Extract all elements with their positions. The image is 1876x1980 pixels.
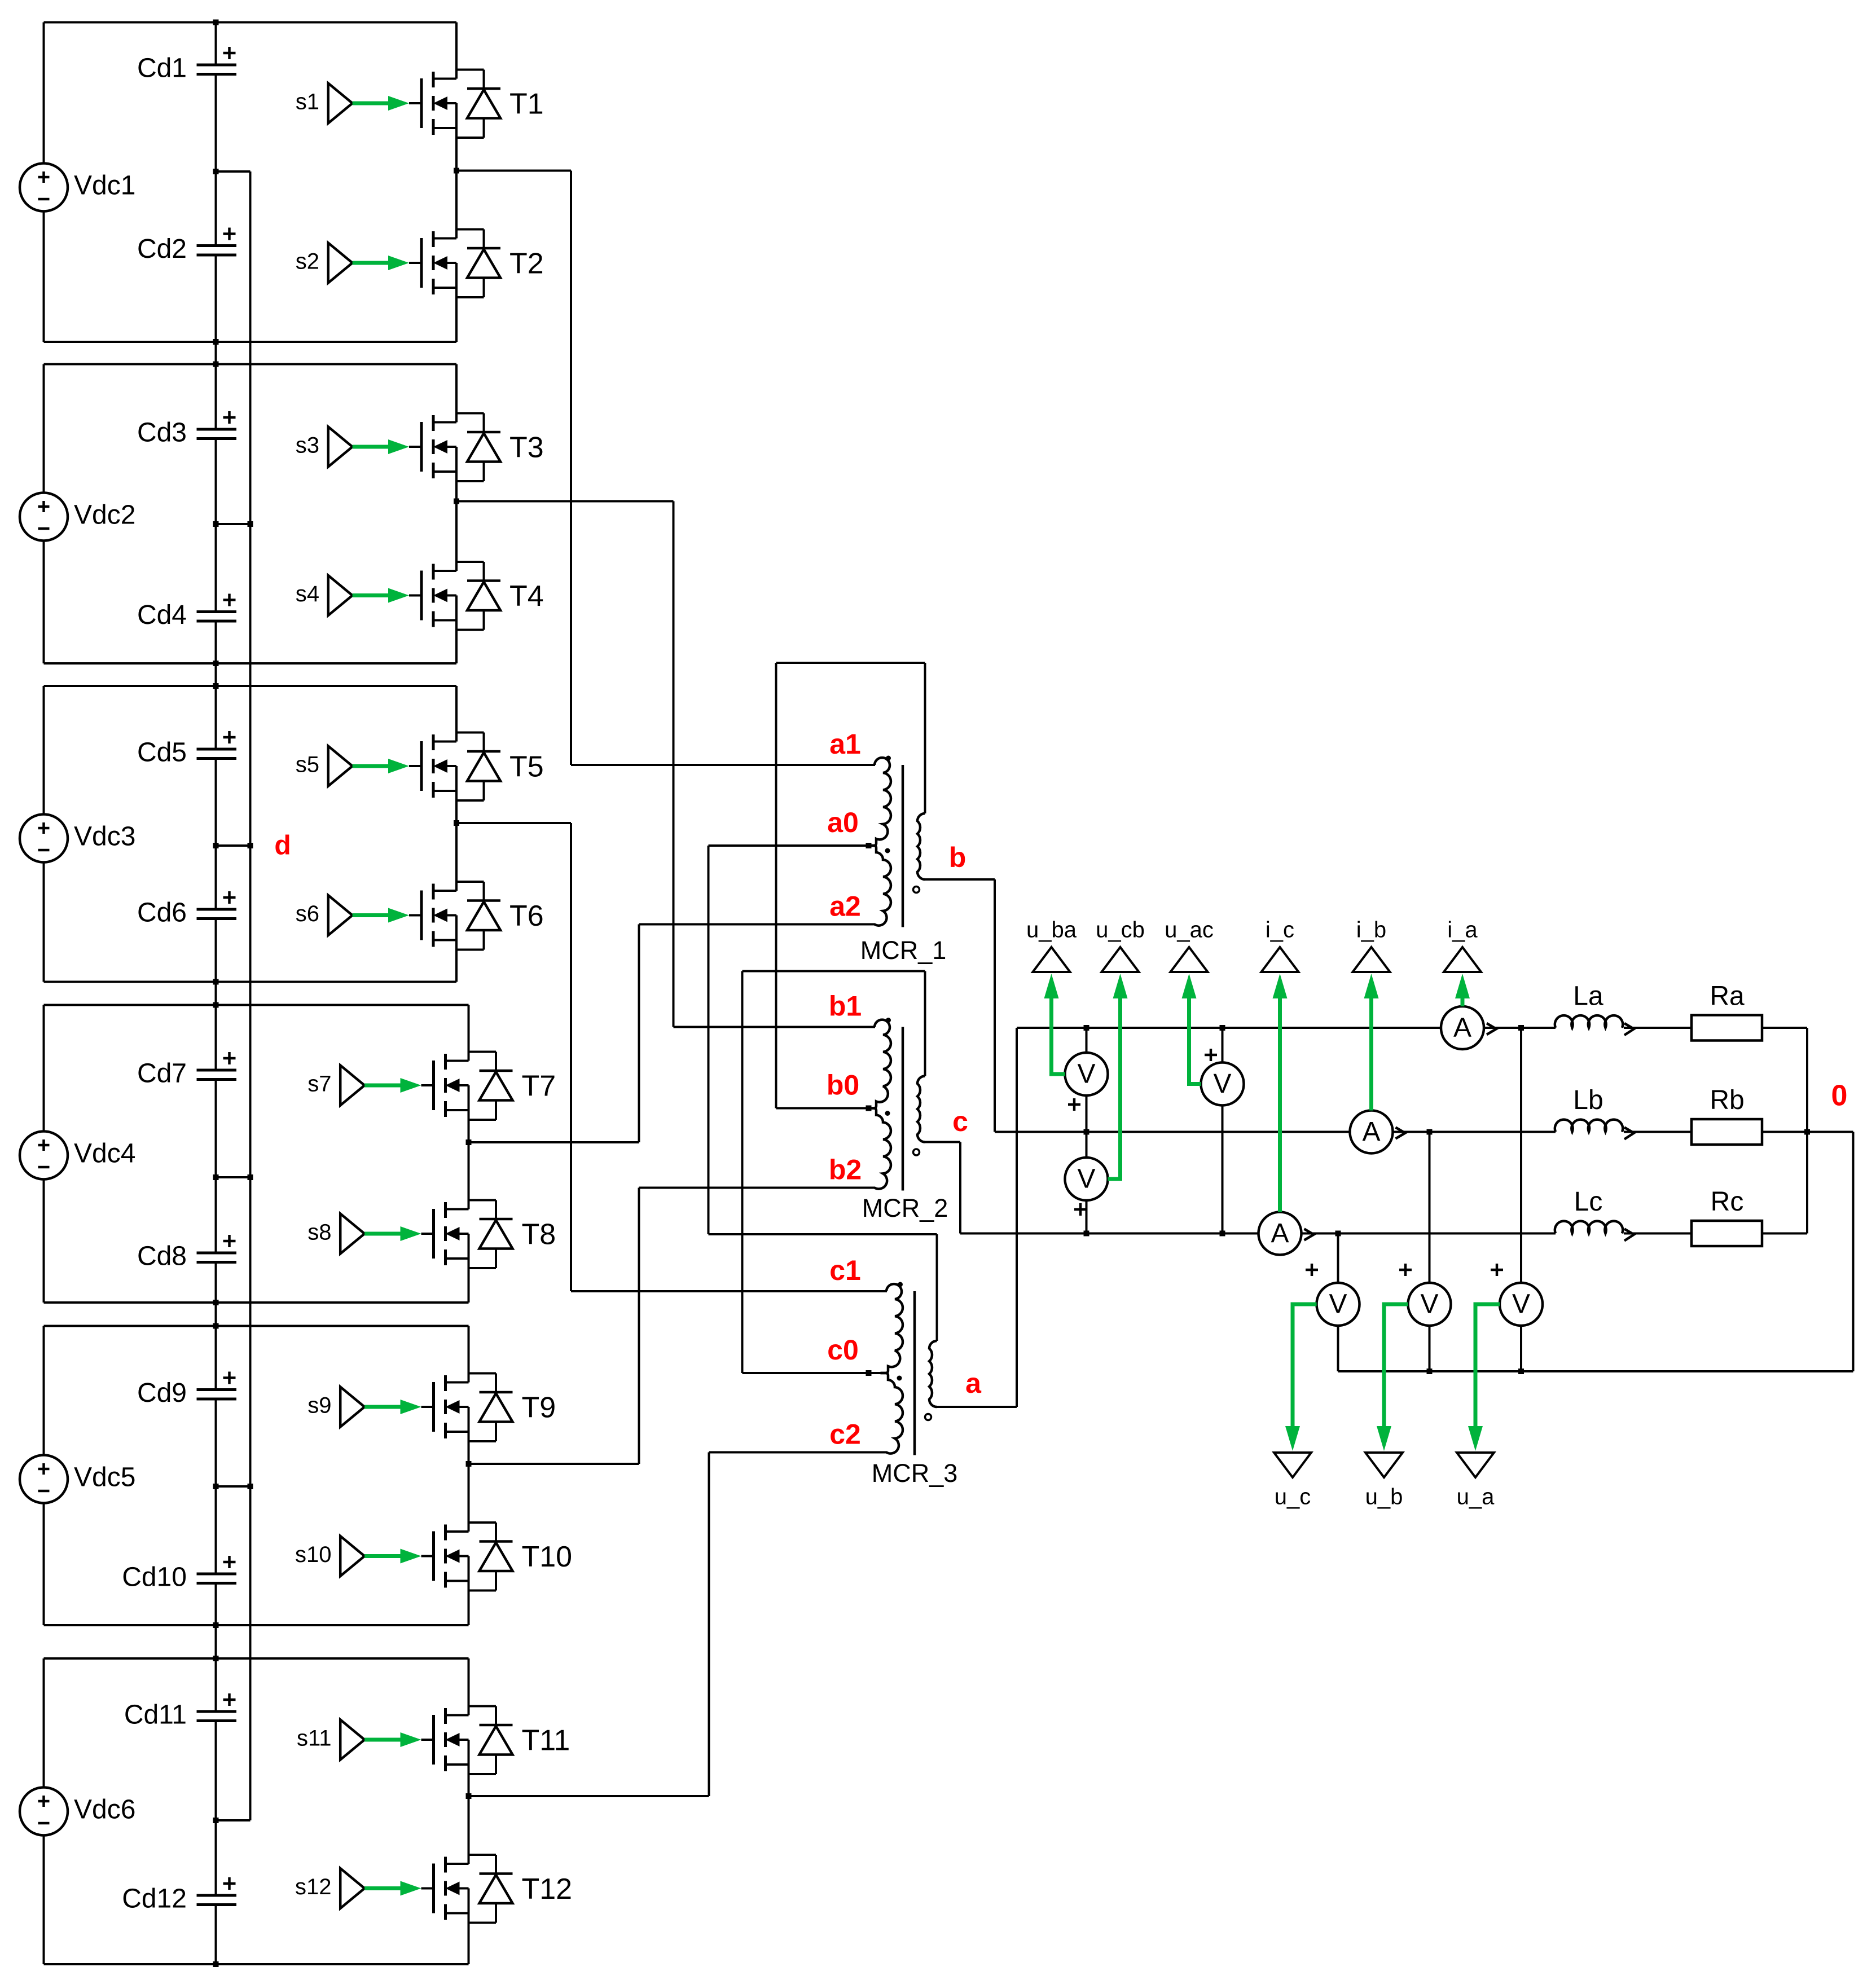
wire cell4 drain link upper [468, 1005, 470, 1061]
gate driver s12 [340, 1868, 433, 1908]
probe i_b [1353, 918, 1390, 972]
gate driver s6 [328, 895, 421, 935]
polarity circle MCR_1 secondary [913, 887, 920, 893]
wire cell5 mid link [468, 1407, 470, 1532]
gate driver s11 [340, 1720, 433, 1760]
wire cell1 left side upper [43, 23, 45, 164]
probe i_c [1262, 918, 1299, 972]
green link u_ac [1189, 998, 1201, 1084]
gate driver s5 [328, 746, 421, 786]
svg-text:Cd8: Cd8 [137, 1242, 187, 1271]
junction cell3 d-bus tap [248, 843, 253, 848]
wire cap branch cell5 bottom [215, 1583, 217, 1626]
wire c0 to MCR_2 secondary horizontal [743, 970, 925, 973]
svg-text:u_a: u_a [1457, 1485, 1495, 1510]
wire cell1 top rail [44, 21, 457, 24]
svg-text:s7: s7 [307, 1072, 331, 1097]
green arrow u_a [1468, 1426, 1483, 1451]
junction cell2 cap-branch top [213, 362, 219, 367]
wire cell3 phase to c1 horizontal [456, 822, 571, 824]
wire cell1 phase to a1 vertical [570, 171, 572, 765]
svg-text:0: 0 [1831, 1080, 1848, 1112]
wire b0 to MCR_1 secondary horizontal [776, 662, 925, 664]
wire rail b after resistor [1762, 1131, 1807, 1133]
wire cell1 bottom rail [44, 341, 457, 343]
wire c2 lead [709, 1451, 888, 1454]
svg-text:a: a [965, 1367, 982, 1399]
wire load star vertical [1806, 1028, 1808, 1234]
junction cell2 d-bus tap [248, 521, 253, 527]
capacitor Cd8 [137, 1235, 236, 1271]
wire a0 to MCR_3 secondary vertical [708, 846, 710, 1234]
wire cell3 drain link upper [455, 686, 458, 742]
svg-text:c1: c1 [829, 1255, 861, 1286]
wire MCR_3 secondary top lead [936, 1234, 938, 1341]
junction u_a rail a [1518, 1025, 1524, 1031]
svg-text:La: La [1573, 982, 1603, 1011]
junction cell4 cap-branch bottom [213, 1300, 219, 1305]
wire cell4 top rail [44, 1004, 469, 1006]
svg-text:T10: T10 [522, 1541, 573, 1573]
wire cap branch cell3 bottom [215, 919, 217, 982]
wire rail a after inductor [1624, 1027, 1692, 1029]
label plus u_b [1399, 1264, 1412, 1276]
wire phase c output vertical [959, 1142, 961, 1234]
transistor T3 [409, 413, 500, 482]
wire cell5 top rail [44, 1325, 469, 1327]
junction cell2 cap-branch bottom [213, 661, 219, 666]
wire cap branch cell6 mid-lower [215, 1820, 217, 1895]
wire b1 lead [674, 1026, 876, 1028]
svg-text:s11: s11 [297, 1726, 332, 1751]
junction u_ac rail c [1220, 1231, 1225, 1237]
green link i_a [1461, 998, 1465, 1006]
wire b0 to MCR_1 secondary vertical [775, 663, 777, 1108]
svg-text:A: A [1271, 1218, 1289, 1248]
wire rail c right segment [1302, 1233, 1556, 1235]
wire rail a left segment [1017, 1027, 1441, 1029]
svg-text:T7: T7 [522, 1070, 556, 1103]
svg-text:T3: T3 [509, 432, 544, 464]
wire rail c after inductor [1624, 1233, 1692, 1235]
wire cell3 top rail [44, 685, 457, 687]
gate driver s1 [328, 83, 421, 124]
junction cell5 cap-branch bottom [213, 1622, 219, 1628]
wire cell6 left side upper [43, 1658, 45, 1788]
svg-text:MCR_2: MCR_2 [862, 1194, 948, 1222]
svg-text:b1: b1 [829, 991, 862, 1022]
wire cell2 left side lower [43, 541, 45, 664]
gate driver s9 [340, 1387, 433, 1427]
svg-text:s3: s3 [296, 433, 319, 458]
wire cell4 capacitor midpoint to d-bus [216, 1176, 251, 1178]
gate driver s8 [340, 1214, 433, 1254]
transistor T7 [421, 1052, 513, 1120]
capacitor Cd5 [137, 731, 236, 768]
node cell5 phase junction [466, 1461, 472, 1467]
probe u_c [1274, 1453, 1311, 1510]
resistor Rc [1692, 1187, 1762, 1246]
inductor Lc [1555, 1187, 1634, 1240]
svg-text:Cd11: Cd11 [124, 1700, 187, 1730]
wire cell1 left side lower [43, 212, 45, 342]
wire V column middle lead [1086, 1095, 1088, 1158]
svg-text:u_b: u_b [1365, 1485, 1403, 1510]
wire cap branch cell3 mid-lower [215, 846, 217, 909]
wire series link cell4-cell5 [215, 1303, 217, 1326]
svg-text:b0: b0 [827, 1070, 859, 1101]
capacitor Cd10 [122, 1556, 236, 1592]
junction cell2 capacitor midpoint [213, 521, 219, 527]
junction cell4 cap-branch top [213, 1002, 219, 1008]
junction MCR_3 center tap [866, 1370, 872, 1376]
capacitor Cd4 [137, 594, 236, 631]
label plus u_c [1306, 1264, 1318, 1276]
wire cell5 phase to b2 vertical [638, 1188, 640, 1464]
svg-text:Cd9: Cd9 [137, 1378, 187, 1408]
wire rail b after inductor [1624, 1131, 1692, 1133]
node cell1 phase junction [454, 168, 459, 174]
polarity dot MCR_2 primary upper [886, 1018, 891, 1023]
wire cell4 left side lower [43, 1180, 45, 1303]
wire rail a after resistor [1762, 1027, 1807, 1029]
svg-text:T1: T1 [509, 88, 544, 121]
junction cell3 cap-branch bottom [213, 979, 219, 985]
wire cell5 phase to b2 horizontal [469, 1463, 639, 1465]
voltmeter u_c [1317, 1283, 1360, 1326]
green arrow u_cb [1113, 974, 1128, 1001]
wire cell5 left side lower [43, 1503, 45, 1626]
svg-text:Lb: Lb [1573, 1085, 1603, 1115]
svg-text:s2: s2 [296, 249, 319, 274]
capacitor Cd1 [137, 47, 236, 83]
wire neutral return top [1807, 1131, 1853, 1133]
junction u_b bottom wire [1427, 1369, 1433, 1374]
wire cap branch cell4 mid-lower [215, 1177, 217, 1253]
green arrow u_ba [1044, 974, 1059, 1001]
svg-text:i_c: i_c [1266, 918, 1294, 943]
wire rail b left segment [995, 1131, 1350, 1133]
green arrow i_b [1364, 974, 1379, 1001]
junction cell6 cap-branch bottom [213, 1961, 219, 1967]
wire cell6 left side lower [43, 1836, 45, 1965]
polarity circle MCR_3 secondary [925, 1414, 932, 1420]
svg-text:a2: a2 [829, 891, 861, 922]
voltage source Vdc4 [20, 1132, 135, 1180]
voltmeter u_ba [1065, 1053, 1108, 1095]
green arrow i_c [1273, 974, 1288, 1001]
transistor T12 [421, 1855, 513, 1923]
junction u_ac rail a [1220, 1025, 1225, 1031]
wire phase b output horizontal [925, 878, 995, 881]
wire cell6 top rail [44, 1657, 469, 1660]
transistor T2 [409, 230, 500, 298]
svg-text:T9: T9 [522, 1392, 556, 1424]
wire cell3 bottom rail [44, 981, 457, 983]
junction V column rail b [1084, 1129, 1089, 1135]
svg-text:i_a: i_a [1447, 918, 1478, 943]
svg-text:Ra: Ra [1710, 982, 1745, 1011]
polarity dot MCR_1 primary upper [886, 756, 891, 761]
gate driver s7 [340, 1066, 433, 1106]
gate driver s2 [328, 243, 421, 283]
wire cap branch cell6 bottom [215, 1905, 217, 1965]
svg-text:Vdc4: Vdc4 [74, 1139, 135, 1169]
wire phase c output horizontal [925, 1141, 961, 1143]
wire MCR_1 secondary top lead [924, 663, 926, 813]
wire cell2 drain link upper [455, 364, 458, 423]
wire u_c bottom lead [1337, 1326, 1339, 1371]
svg-text:b: b [949, 842, 966, 873]
gate driver s10 [340, 1536, 433, 1576]
wire u_ac upper lead [1222, 1028, 1224, 1063]
node cell3 phase junction [454, 820, 459, 826]
junction cell4 d-bus tap [248, 1174, 253, 1180]
wire b0 tap horizontal [776, 1107, 869, 1110]
junction MCR_2 center tap [866, 1106, 872, 1111]
svg-text:b2: b2 [829, 1154, 862, 1186]
wire cap branch cell3 upper [215, 686, 217, 749]
svg-text:s8: s8 [307, 1220, 331, 1245]
wire cell3 capacitor midpoint to d-bus [216, 844, 251, 847]
transistor T8 [421, 1200, 513, 1269]
capacitor Cd7 [137, 1052, 236, 1089]
wire cell3 phase to c1 vertical [570, 823, 572, 1291]
wire c0 to MCR_2 secondary vertical [741, 971, 744, 1374]
wire d-bus vertical [249, 171, 252, 1820]
wire cap branch cell6 between [215, 1721, 217, 1821]
wire cap branch cell2 bottom [215, 621, 217, 663]
svg-text:MCR_3: MCR_3 [872, 1459, 958, 1488]
wire V column lower lead [1086, 1200, 1088, 1234]
wire series link cell5-cell6 [215, 1625, 217, 1658]
wire cell5 capacitor midpoint to d-bus [216, 1485, 251, 1488]
wire cell6 phase to c2 horizontal [469, 1795, 709, 1797]
junction cell1 capacitor midpoint [213, 169, 219, 174]
svg-text:s9: s9 [307, 1393, 331, 1418]
wire cap branch cell2 mid-lower [215, 524, 217, 612]
wire cell4 left side upper [43, 1005, 45, 1132]
gate driver s3 [328, 427, 421, 467]
junction cell3 cap-branch top [213, 683, 219, 689]
green link i_c [1278, 998, 1282, 1212]
svg-text:Cd3: Cd3 [137, 418, 187, 448]
capacitor Cd11 [124, 1693, 236, 1730]
wire cell2 bottom rail [44, 662, 457, 665]
wire cell6 drain link upper [468, 1658, 470, 1715]
svg-text:V: V [1077, 1164, 1095, 1194]
wire cell2 phase to b1 vertical [673, 501, 675, 1027]
junction V column rail a [1084, 1025, 1089, 1031]
wire b2 lead [639, 1187, 876, 1189]
wire cap branch cell5 mid-lower [215, 1486, 217, 1574]
junction V column rail c [1084, 1231, 1089, 1237]
svg-text:u_ba: u_ba [1026, 918, 1077, 943]
junction u_a bottom wire [1518, 1369, 1524, 1374]
svg-text:Cd2: Cd2 [137, 234, 187, 264]
svg-text:A: A [1453, 1013, 1471, 1043]
wire rail a right segment [1484, 1027, 1556, 1029]
wire cell3 source link lower [455, 916, 458, 982]
wire cell4 phase to a2 horizontal [469, 1141, 639, 1143]
node cell2 phase junction [454, 499, 459, 504]
label plus u_cb [1074, 1203, 1087, 1216]
wire cell3 left side upper [43, 686, 45, 815]
svg-text:T2: T2 [509, 248, 544, 280]
green link u_ba [1052, 998, 1065, 1074]
svg-text:V: V [1420, 1290, 1438, 1319]
svg-text:Vdc2: Vdc2 [74, 500, 135, 530]
svg-text:V: V [1512, 1290, 1530, 1319]
voltmeter u_cb [1065, 1158, 1108, 1200]
wire phase a output horizontal [937, 1406, 1017, 1408]
green arrow u_ac [1182, 974, 1197, 1001]
voltmeter u_b [1408, 1283, 1451, 1326]
transformer MCR_1 primary winding [869, 758, 891, 846]
transformer MCR_2 secondary winding [917, 1076, 925, 1142]
svg-text:s5: s5 [296, 753, 319, 777]
svg-text:Cd7: Cd7 [137, 1059, 187, 1089]
svg-text:Cd5: Cd5 [137, 738, 187, 768]
probe u_a [1457, 1453, 1495, 1510]
svg-text:a0: a0 [827, 807, 859, 838]
wire cell5 source link lower [468, 1556, 470, 1626]
capacitor Cd3 [137, 411, 236, 448]
wire cell2 capacitor midpoint to d-bus [216, 523, 251, 525]
junction cell1 cap-branch bottom [213, 339, 219, 345]
voltage source Vdc6 [20, 1788, 135, 1836]
svg-text:T4: T4 [509, 580, 544, 613]
probe u_b [1365, 1453, 1403, 1510]
green arrow u_c [1285, 1426, 1300, 1451]
svg-text:MCR_1: MCR_1 [860, 936, 947, 965]
svg-text:Vdc1: Vdc1 [74, 171, 135, 201]
wire cell1 source link lower [455, 263, 458, 342]
ammeter i_a [1441, 1006, 1496, 1049]
wire c0 tap horizontal [743, 1372, 881, 1374]
green link i_b [1369, 998, 1373, 1111]
wire cell5 bottom rail [44, 1624, 469, 1626]
capacitor Cd2 [137, 228, 236, 265]
gate driver s4 [328, 575, 421, 615]
resistor Rb [1692, 1085, 1762, 1145]
junction cell3 capacitor midpoint [213, 843, 219, 848]
wire cap branch cell1 between [215, 74, 217, 172]
wire cap branch cell2 upper [215, 364, 217, 430]
wire u_b bottom lead [1429, 1326, 1431, 1371]
wire cap branch cell5 between [215, 1399, 217, 1486]
wire cell1 mid link [455, 103, 458, 239]
junction cell5 capacitor midpoint [213, 1484, 219, 1489]
probe u_ac [1165, 918, 1214, 972]
transistor T4 [409, 562, 500, 630]
wire a0 tap horizontal [709, 844, 869, 847]
green arrow u_b [1377, 1426, 1391, 1451]
junction cell4 capacitor midpoint [213, 1174, 219, 1180]
svg-text:Rb: Rb [1710, 1085, 1744, 1115]
transformer MCR_3 core [913, 1291, 916, 1455]
capacitor Cd12 [122, 1877, 236, 1914]
wire cell2 top rail [44, 363, 457, 366]
voltmeter u_ac [1201, 1063, 1244, 1106]
wire c1 lead [571, 1290, 887, 1292]
svg-text:s4: s4 [296, 582, 319, 606]
svg-text:Cd12: Cd12 [122, 1884, 187, 1914]
node cell4 phase junction [466, 1139, 472, 1145]
wire series link cell2-cell3 [215, 663, 217, 686]
green link u_a [1475, 1304, 1500, 1427]
transistor T9 [421, 1374, 513, 1442]
voltage source Vdc2 [20, 493, 135, 541]
wire cap branch cell4 upper [215, 1005, 217, 1071]
junction cell5 cap-branch top [213, 1323, 219, 1329]
wire cap branch cell1 bottom [215, 255, 217, 342]
probe u_ba [1026, 918, 1077, 972]
polarity dot MCR_2 primary lower [885, 1111, 890, 1116]
wire cell6 phase to c2 vertical [708, 1453, 710, 1797]
wire u_a top lead [1520, 1028, 1522, 1283]
junction u_b rail b [1427, 1129, 1433, 1135]
svg-text:Vdc5: Vdc5 [74, 1463, 135, 1493]
inductor Lb [1555, 1085, 1634, 1139]
svg-text:u_ac: u_ac [1165, 918, 1214, 943]
junction cell5 d-bus tap [248, 1484, 253, 1489]
wire phase a output vertical [1016, 1028, 1018, 1407]
wire cell1 phase to a1 horizontal [456, 170, 571, 172]
svg-text:T8: T8 [522, 1218, 556, 1251]
voltage source Vdc5 [20, 1455, 135, 1503]
transistor T10 [421, 1523, 513, 1591]
transformer MCR_1 secondary winding [917, 813, 925, 879]
wire cell6 capacitor midpoint to d-bus [216, 1819, 251, 1821]
wire cap branch cell5 upper [215, 1326, 217, 1390]
voltmeter u_a [1500, 1283, 1543, 1326]
wire cell2 mid link [455, 447, 458, 571]
probe u_cb [1096, 918, 1145, 972]
svg-text:Vdc3: Vdc3 [74, 822, 135, 852]
wire a1 lead [571, 764, 875, 766]
wire cap branch cell1 upper [215, 23, 217, 65]
svg-text:Cd4: Cd4 [137, 600, 187, 630]
wire series link cell1-cell2 [215, 342, 217, 364]
svg-text:V: V [1329, 1290, 1347, 1319]
wire cell3 left side lower [43, 863, 45, 982]
wire u_a bottom lead [1520, 1326, 1522, 1371]
wire MCR_2 secondary top lead [924, 971, 926, 1076]
polarity dot MCR_3 primary upper [898, 1282, 903, 1287]
wire neutral return right vertical [1852, 1132, 1855, 1372]
green arrow i_a [1455, 974, 1470, 1001]
wire cell2 left side upper [43, 364, 45, 493]
wire rail c after resistor [1762, 1233, 1807, 1235]
wire cell5 left side upper [43, 1326, 45, 1455]
svg-text:c0: c0 [827, 1334, 859, 1366]
label plus u_ba [1068, 1098, 1080, 1111]
wire cell4 source link lower [468, 1234, 470, 1303]
polarity circle MCR_2 secondary [913, 1149, 920, 1155]
wire cell5 drain link upper [468, 1326, 470, 1383]
probe i_a [1444, 918, 1481, 972]
transformer MCR_1 core [902, 765, 904, 927]
svg-text:s6: s6 [296, 901, 319, 926]
svg-text:T6: T6 [509, 900, 544, 932]
green link u_b [1384, 1304, 1408, 1427]
node 0 junction [1804, 1129, 1810, 1135]
transistor T5 [409, 733, 500, 801]
wire a0 to MCR_3 secondary horizontal [709, 1233, 937, 1235]
svg-text:T11: T11 [522, 1724, 570, 1757]
wire cell3 mid link [455, 766, 458, 891]
